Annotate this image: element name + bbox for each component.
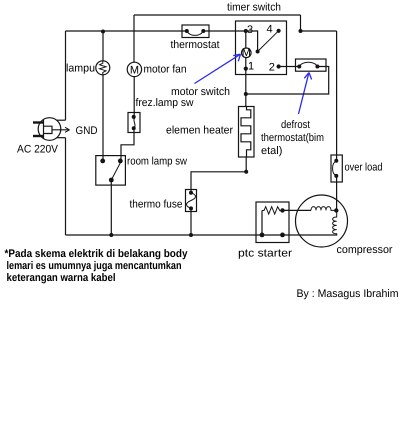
svg-text:*Pada skema elektrik di belaka: *Pada skema elektrik di belakang body (5, 248, 189, 260)
svg-text:keterangan warna kabel: keterangan warna kabel (7, 272, 116, 284)
svg-text:frez.lamp sw: frez.lamp sw (136, 97, 194, 109)
wire thermo fuse to bus (190, 208, 192, 235)
thermo fuse F1 (186, 190, 197, 212)
svg-text:AC 220V: AC 220V (17, 144, 59, 156)
node terminal 3 (244, 29, 248, 33)
wire terminal-4 net to right bus corner (301, 30, 337, 32)
node terminal 4 (277, 29, 281, 33)
wire to heater (245, 94, 247, 107)
wire right bus (down to over load) (336, 31, 338, 161)
plug prong lower (33, 135, 44, 137)
wire lamp branch upper (102, 32, 104, 62)
svg-text:motor fan: motor fan (144, 64, 187, 76)
node pivot (256, 50, 260, 54)
svg-text:compressor: compressor (337, 244, 393, 256)
svg-text:2: 2 (269, 62, 275, 74)
wire ptc to run coil (283, 209, 312, 211)
wire top bus (timer 4 net to motor fan branch) (134, 14, 301, 16)
frez.lamp sw (128, 113, 140, 133)
wire bottom bus (66, 234, 338, 236)
svg-text:M: M (242, 47, 251, 59)
timer switch arm (258, 31, 279, 52)
lamp (lampu) (96, 61, 110, 75)
svg-text:defrost: defrost (281, 119, 310, 131)
svg-text:room lamp sw: room lamp sw (127, 156, 187, 168)
node junction thermo fuse at bus (189, 233, 193, 237)
motor fan M1 (127, 62, 141, 76)
compressor run coil (311, 207, 336, 211)
timer motor U1 (M) (242, 47, 252, 59)
plug prong upper (33, 121, 44, 123)
svg-text:By : Masagus Ibrahim: By : Masagus Ibrahim (297, 288, 399, 300)
over load OL1 (331, 155, 342, 182)
node junction terminal-4 net (299, 29, 303, 33)
svg-text:etal): etal) (261, 145, 282, 157)
GND arrow (52, 127, 70, 132)
wire main horizontal y=31 (left bus to timer box) (66, 30, 236, 32)
blue arrow motor switch (195, 54, 241, 83)
svg-text:thermostat(bim: thermostat(bim (261, 132, 324, 144)
heater element (elemen heater) (239, 107, 255, 158)
wire vertical drop to junction at terminal-4 net (300, 15, 302, 31)
compressor housing circle (296, 195, 348, 247)
svg-text:elemen heater: elemen heater (166, 125, 233, 137)
wire left bus upper (65, 31, 67, 120)
thermostat TH1 (182, 25, 209, 38)
node ptc left at bus (260, 233, 265, 238)
node ptc resistor right (280, 208, 284, 212)
wire pivot drop (236, 31, 258, 52)
node junction coils / right bus (334, 208, 338, 212)
wire lamp branch lower (to room lamp sw) (102, 75, 104, 161)
wire terminal 2 to defrost thermostat (279, 66, 300, 68)
wire defrost return (right jog down and back) (246, 67, 329, 95)
svg-text:lemari es umumnya juga mencant: lemari es umumnya juga mencantumkan (7, 260, 182, 272)
footnote text (5, 248, 189, 284)
svg-text:GND: GND (76, 125, 98, 137)
room lamp sw (96, 156, 126, 186)
wire motor fan branch (133, 15, 135, 62)
compressor start coil (333, 211, 337, 236)
ptc starter box (256, 202, 289, 243)
AC plug body (38, 118, 61, 141)
node terminal 2 (277, 64, 281, 68)
node ptc right at bus (280, 233, 285, 238)
wire motor fan to frez switch (133, 77, 135, 117)
node junction room lamp at bus (109, 233, 113, 237)
svg-text:thermostat: thermostat (171, 39, 220, 51)
node corner dot heater bottom (244, 170, 248, 174)
wire jog from plug bottom (57, 137, 66, 139)
svg-text:1: 1 (248, 61, 254, 73)
svg-text:4: 4 (267, 24, 273, 36)
timer switch box (236, 21, 287, 75)
label defrost thermostat(bimetal) (261, 119, 324, 157)
svg-text:timer switch: timer switch (227, 2, 281, 14)
wire timer vertical 3-M-1 (245, 31, 247, 94)
wire room lamp sw to bottom bus (110, 180, 112, 235)
svg-text:ptc starter: ptc starter (238, 248, 292, 260)
wire jog to plug top (57, 119, 66, 121)
svg-text:lampu: lampu (66, 63, 95, 75)
svg-text:M: M (130, 65, 139, 77)
node junction heater net (244, 92, 248, 96)
wire left bus lower (65, 138, 67, 235)
svg-text:over load: over load (345, 162, 383, 174)
defrost thermostat DT1 (296, 59, 327, 71)
blue arrow defrost thermostat (299, 73, 312, 115)
node terminal 1 (244, 67, 248, 71)
wire over load to compressor junction (336, 176, 338, 211)
wire heater bottom to thermo fuse (191, 157, 246, 193)
wire ptc left lead (261, 211, 263, 235)
svg-text:3: 3 (247, 24, 253, 36)
node junction lamp branch (101, 30, 105, 34)
svg-text:motor switch: motor switch (171, 86, 230, 98)
ptc resistor R1 (262, 207, 283, 214)
wire frez switch to room lamp sw (121, 128, 134, 161)
svg-text:thermo fuse: thermo fuse (130, 199, 183, 211)
